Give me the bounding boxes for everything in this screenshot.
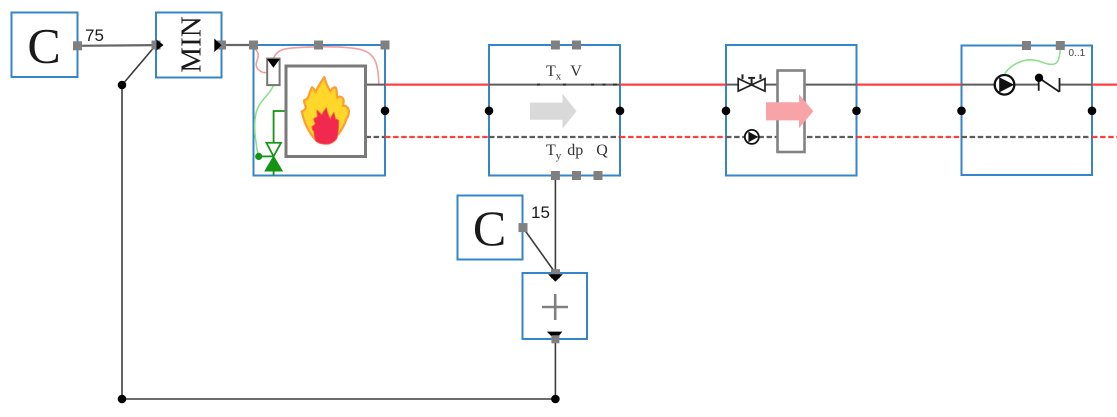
- svg-text:C: C: [473, 200, 506, 256]
- svg-text:0..1: 0..1: [1069, 48, 1086, 59]
- svg-text:15: 15: [531, 203, 550, 222]
- svg-text:C: C: [27, 18, 60, 74]
- svg-text:MIN: MIN: [176, 16, 208, 72]
- svg-text:TydpQ: TydpQ: [546, 142, 608, 162]
- svg-text:75: 75: [85, 26, 104, 45]
